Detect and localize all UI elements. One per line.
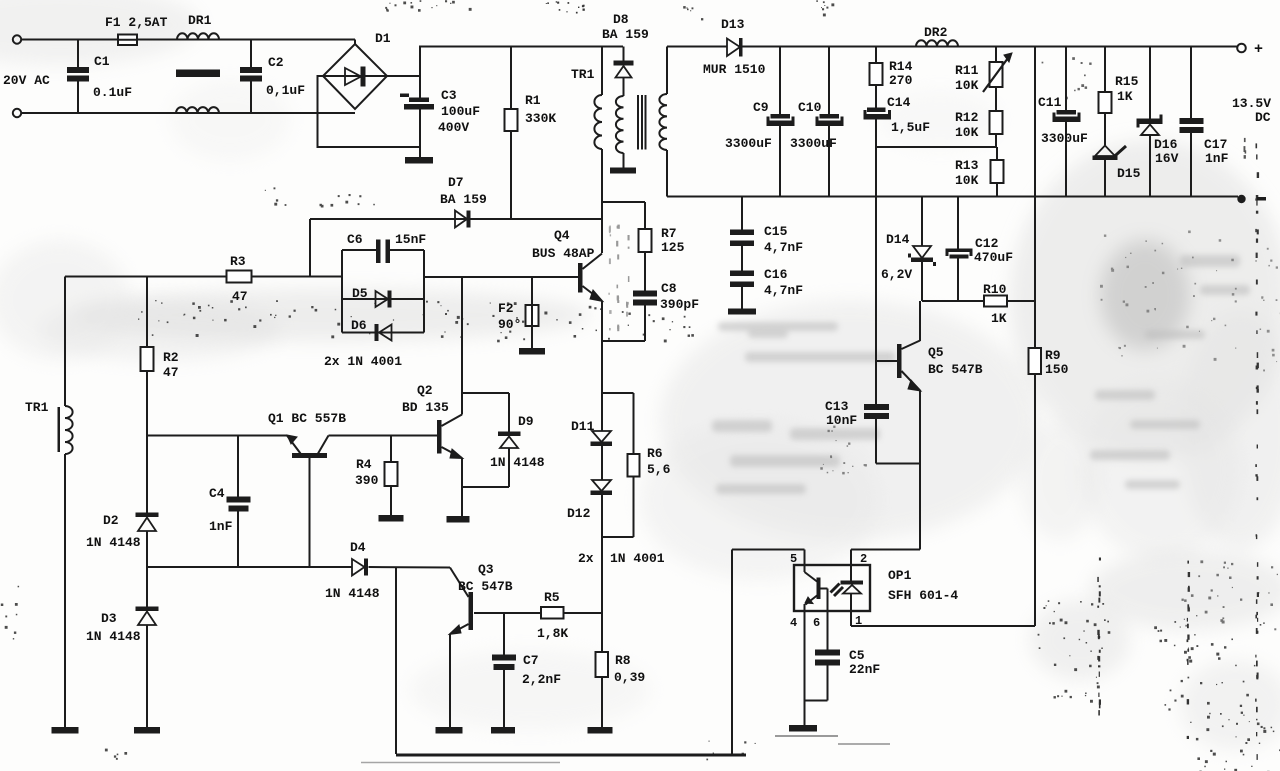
svg-text:1N 4001: 1N 4001	[610, 551, 665, 566]
C15/C16 end bar	[728, 309, 756, 315]
svg-text:R15: R15	[1115, 74, 1139, 89]
DR1 ferrite core bar	[176, 70, 220, 78]
resistor R15 1K	[1104, 47, 1106, 93]
svg-text:D8: D8	[613, 12, 629, 27]
svg-text:Q2: Q2	[417, 383, 433, 398]
svg-text:D13: D13	[721, 17, 745, 32]
svg-text:C11: C11	[1038, 95, 1062, 110]
svg-text:C10: C10	[798, 100, 822, 115]
svg-text:1K: 1K	[991, 311, 1007, 326]
capacitor C12 470uF	[957, 197, 959, 250]
svg-text:R9: R9	[1045, 348, 1061, 363]
wire D4 line to bottom return	[395, 567, 397, 754]
svg-text:Q4: Q4	[554, 228, 570, 243]
svg-text:20V AC: 20V AC	[3, 73, 50, 88]
resistor R8 0,39	[601, 613, 603, 652]
wire D4 line	[147, 566, 352, 568]
svg-text:13.5V: 13.5V	[1232, 96, 1271, 111]
svg-text:+: +	[1254, 41, 1263, 58]
svg-text:Q3: Q3	[478, 562, 494, 577]
wire OP1 pin5 drop	[731, 550, 733, 755]
OP1 light arrows	[831, 584, 840, 593]
svg-text:R11: R11	[955, 63, 979, 78]
ground TR1 aux	[52, 727, 79, 734]
wire Q4 base line	[342, 276, 424, 278]
svg-text:C13: C13	[825, 399, 849, 414]
resistor R3 47	[227, 271, 252, 283]
svg-text:1N 4148: 1N 4148	[325, 586, 380, 601]
svg-text:10nF: 10nF	[826, 413, 857, 428]
ground R8	[588, 727, 613, 734]
capacitor C1 0.1uF	[77, 40, 79, 68]
zener D14 6,2V	[921, 197, 923, 247]
svg-text:D12: D12	[567, 506, 591, 521]
svg-text:F1 2,5AT: F1 2,5AT	[105, 15, 168, 30]
svg-text:1,8K: 1,8K	[537, 626, 568, 641]
capacitor C5 22nF	[815, 650, 840, 656]
inductor DR2	[916, 40, 958, 46]
svg-text:DR1: DR1	[188, 13, 212, 28]
svg-text:D2: D2	[103, 513, 119, 528]
wire C3 node vertical	[419, 46, 421, 99]
svg-text:D6: D6	[351, 318, 367, 333]
svg-text:BA 159: BA 159	[602, 27, 649, 42]
svg-text:1,5uF: 1,5uF	[891, 120, 930, 135]
svg-text:D7: D7	[448, 175, 464, 190]
svg-text:6,2V: 6,2V	[881, 267, 912, 282]
ground C3	[405, 157, 433, 164]
svg-text:22nF: 22nF	[849, 662, 880, 677]
resistor R2 47	[146, 277, 148, 348]
svg-text:5,6: 5,6	[647, 462, 671, 477]
optocoupler OP1 SFH 601-4	[794, 565, 870, 611]
resistor R9 150	[1034, 301, 1036, 348]
svg-text:0,1uF: 0,1uF	[266, 83, 305, 98]
svg-text:4,7nF: 4,7nF	[764, 283, 803, 298]
capacitor C15 4,7nF	[741, 197, 743, 231]
svg-text:D14: D14	[886, 232, 910, 247]
svg-text:330K: 330K	[525, 111, 556, 126]
svg-text:390pF: 390pF	[660, 297, 699, 312]
svg-text:D4: D4	[350, 540, 366, 555]
svg-text:Q1 BC 557B: Q1 BC 557B	[268, 411, 346, 426]
wire bridge DC- return	[318, 76, 421, 147]
wire top rail primary	[420, 46, 623, 48]
svg-text:2,2nF: 2,2nF	[522, 672, 561, 687]
svg-text:1N 4148: 1N 4148	[86, 629, 141, 644]
svg-text:1nF: 1nF	[1205, 151, 1229, 166]
svg-text:2: 2	[860, 552, 867, 566]
svg-text:1K: 1K	[1117, 89, 1133, 104]
OP1 phototransistor	[804, 565, 806, 572]
wire bridge DC+ to C3 node	[387, 75, 420, 77]
wire +rail to R10/R9 node (crosses bottom rail)	[1034, 47, 1036, 302]
transformer TR1 core	[637, 95, 639, 150]
resistor R5 1,8K	[474, 612, 541, 614]
svg-text:R10: R10	[983, 282, 1007, 297]
svg-text:D11: D11	[571, 419, 595, 434]
OP1 pin 6 lead	[827, 611, 829, 650]
svg-text:16V: 16V	[1155, 151, 1179, 166]
svg-text:BC 547B: BC 547B	[458, 579, 513, 594]
svg-text:Q5: Q5	[928, 345, 944, 360]
diode D8 BA 159	[623, 47, 625, 62]
svg-text:5: 5	[790, 552, 797, 566]
svg-text:C7: C7	[523, 653, 539, 668]
svg-text:125: 125	[661, 240, 685, 255]
node output + terminal	[1237, 44, 1246, 53]
svg-text:OP1: OP1	[888, 568, 912, 583]
transistor Q4 BUS 48AP	[578, 263, 583, 293]
capacitor C17 1nF	[1190, 47, 1192, 119]
transistor Q2 BD 135	[437, 420, 442, 454]
transistor Q1 BC 557B	[147, 435, 287, 437]
capacitor C10 3300uF	[828, 47, 830, 115]
OP1 pin 2 lead	[850, 550, 852, 566]
wire bottom rail secondary	[667, 196, 1238, 198]
wire Q2 collector	[461, 277, 463, 415]
capacitor C14 1,5uF	[867, 108, 886, 113]
capacitor C11 3300uF	[1065, 47, 1067, 111]
OP1 pin 4 lead	[804, 611, 806, 725]
svg-text:1N 4148: 1N 4148	[86, 535, 141, 550]
diode D3 1N 4148	[146, 567, 148, 607]
node AC input terminal L	[13, 35, 21, 43]
capacitor C6 15nF	[376, 240, 381, 264]
svg-text:D16: D16	[1154, 137, 1178, 152]
svg-text:400V: 400V	[438, 120, 469, 135]
diode D12	[592, 480, 611, 491]
diode D13 MUR 1510	[727, 39, 740, 57]
transformer TR1 clamp winding	[616, 96, 624, 153]
diode D9 1N 4148 across Q2	[462, 392, 509, 394]
svg-text:D9: D9	[518, 414, 534, 429]
svg-text:R4: R4	[356, 457, 372, 472]
ground R4	[379, 515, 404, 522]
capacitor C16 4,7nF	[730, 271, 754, 277]
svg-text:BA 159: BA 159	[440, 192, 487, 207]
svg-text:0.1uF: 0.1uF	[93, 85, 132, 100]
svg-text:150: 150	[1045, 362, 1069, 377]
ground D3	[134, 727, 160, 734]
svg-text:R13: R13	[955, 158, 979, 173]
svg-text:10K: 10K	[955, 173, 979, 188]
resistor R14 270	[875, 47, 877, 64]
resistor R6 5,6 bypass	[602, 392, 634, 394]
svg-text:2x: 2x	[578, 551, 594, 566]
svg-text:R6: R6	[647, 446, 663, 461]
svg-text:R12: R12	[955, 110, 979, 125]
clamp winding end bar	[610, 168, 636, 174]
wire AC bottom	[21, 112, 355, 114]
svg-text:R14: R14	[889, 59, 913, 74]
capacitor C4 1nF	[237, 436, 239, 498]
svg-text:1nF: 1nF	[209, 519, 233, 534]
svg-text:15nF: 15nF	[395, 232, 426, 247]
svg-text:C15: C15	[764, 224, 788, 239]
svg-text:D3: D3	[101, 611, 117, 626]
svg-text:C8: C8	[661, 281, 677, 296]
svg-text:DR2: DR2	[924, 25, 948, 40]
svg-text:D5: D5	[352, 286, 368, 301]
diode D11	[592, 431, 611, 442]
wire Q5 collector node line	[922, 300, 984, 302]
diode D7 BA 159	[310, 218, 602, 220]
svg-text:C4: C4	[209, 486, 225, 501]
svg-text:C5: C5	[849, 648, 865, 663]
bridge rectifier D1	[323, 44, 387, 109]
svg-text:2x 1N 4001: 2x 1N 4001	[324, 354, 402, 369]
svg-text:1N 4148: 1N 4148	[490, 455, 545, 470]
svg-text:BD 135: BD 135	[402, 400, 449, 415]
svg-text:SFH 601-4: SFH 601-4	[888, 588, 958, 603]
svg-text:R5: R5	[544, 590, 560, 605]
svg-text:10K: 10K	[955, 125, 979, 140]
diode D4 1N 4148	[352, 559, 365, 576]
svg-text:MUR 1510: MUR 1510	[703, 62, 766, 77]
svg-text:C17: C17	[1204, 137, 1227, 152]
svg-text:470uF: 470uF	[974, 250, 1013, 265]
svg-text:C16: C16	[764, 267, 788, 282]
wire AC top	[21, 39, 355, 41]
thyristor D15	[1095, 146, 1115, 157]
wire primary bottom return	[396, 754, 746, 757]
svg-text:C3: C3	[441, 88, 457, 103]
svg-text:TR1: TR1	[571, 67, 595, 82]
wire D7 to R3 line	[309, 219, 311, 277]
svg-text:D1: D1	[375, 31, 391, 46]
resistor R10 1K	[984, 296, 1007, 307]
svg-text:270: 270	[889, 73, 913, 88]
wire top rail secondary	[667, 46, 727, 48]
capacitor C9 3300uF	[779, 47, 781, 115]
svg-text:1: 1	[855, 614, 862, 628]
fuse F1 2,5AT	[118, 35, 137, 46]
svg-text:6: 6	[813, 616, 820, 630]
wire Q4 emitter chain	[601, 301, 603, 431]
svg-text:R2: R2	[163, 350, 179, 365]
svg-text:DC: DC	[1255, 110, 1271, 125]
snubber block C6 D5 D6	[341, 250, 343, 333]
resistor R12 10K	[990, 111, 1003, 134]
inductor DR1 bottom winding	[176, 107, 219, 113]
zener D16 16V	[1149, 47, 1151, 120]
wire R3 feed line	[65, 276, 342, 278]
ground OP1 pin4	[789, 725, 817, 732]
ground Q3 emitter	[436, 727, 463, 734]
svg-text:C14: C14	[887, 95, 911, 110]
svg-text:3300uF: 3300uF	[1041, 131, 1088, 146]
svg-text:C12: C12	[975, 236, 999, 251]
svg-text:TR1: TR1	[25, 400, 49, 415]
wire divider tap line	[876, 146, 997, 148]
svg-text:90°: 90°	[498, 317, 521, 332]
diode D6	[342, 332, 424, 334]
transistor Q5 BC 547B	[897, 344, 902, 378]
svg-text:R7: R7	[661, 226, 677, 241]
fuse F2 90deg	[531, 277, 533, 305]
svg-text:BC 547B: BC 547B	[928, 362, 983, 377]
wire C14 tap to Q5 base (crosses bottom rail)	[875, 147, 877, 361]
ground F2	[519, 348, 545, 355]
capacitor C3 100uF 400V	[409, 98, 429, 103]
svg-text:C9: C9	[753, 100, 769, 115]
OP1 pin 1 lead	[850, 611, 852, 626]
svg-text:C6: C6	[347, 232, 363, 247]
svg-text:C1: C1	[94, 54, 110, 69]
svg-text:4,7nF: 4,7nF	[764, 240, 803, 255]
inductor DR1 common-mode choke top winding	[177, 33, 219, 39]
svg-text:47: 47	[232, 289, 248, 304]
node AC input terminal N	[13, 109, 21, 117]
wire Q2 emitter	[461, 458, 463, 516]
node output - terminal	[1237, 195, 1245, 203]
svg-text:3300uF: 3300uF	[725, 136, 772, 151]
ground C7	[491, 727, 515, 734]
capacitor C7 2,2nF	[503, 613, 505, 655]
OP1 pin 5 lead	[804, 550, 806, 566]
svg-text:0,39: 0,39	[614, 670, 645, 685]
svg-text:D15: D15	[1117, 166, 1141, 181]
svg-text:R8: R8	[615, 653, 631, 668]
svg-text:47: 47	[163, 365, 179, 380]
svg-text:10K: 10K	[955, 78, 979, 93]
resistor R13 10K	[996, 147, 998, 160]
svg-text:100uF: 100uF	[441, 104, 480, 119]
svg-text:BUS 48AP: BUS 48AP	[532, 246, 595, 261]
trimmer R11 10K	[995, 47, 997, 63]
diode D5	[342, 298, 424, 300]
svg-text:R1: R1	[525, 93, 541, 108]
ground Q2 emitter	[447, 516, 470, 523]
svg-text:R3: R3	[230, 254, 246, 269]
transformer TR1 secondary winding	[666, 47, 668, 95]
resistor R7 125 / capacitor C8 390pF snubber	[602, 201, 645, 203]
capacitor C2 0,1uF	[250, 40, 252, 68]
diode D2 1N 4148	[146, 436, 148, 514]
svg-text:F2: F2	[498, 301, 514, 316]
svg-text:3300uF: 3300uF	[790, 136, 837, 151]
capacitor C13 10nF	[875, 361, 877, 405]
svg-text:390: 390	[355, 473, 379, 488]
transistor Q3 BC 547B	[469, 592, 474, 630]
resistor R1 330K	[510, 47, 512, 110]
OP1 LED	[850, 565, 852, 581]
resistor R4 390	[390, 436, 392, 463]
svg-text:C2: C2	[268, 55, 284, 70]
svg-text:4: 4	[790, 616, 797, 630]
